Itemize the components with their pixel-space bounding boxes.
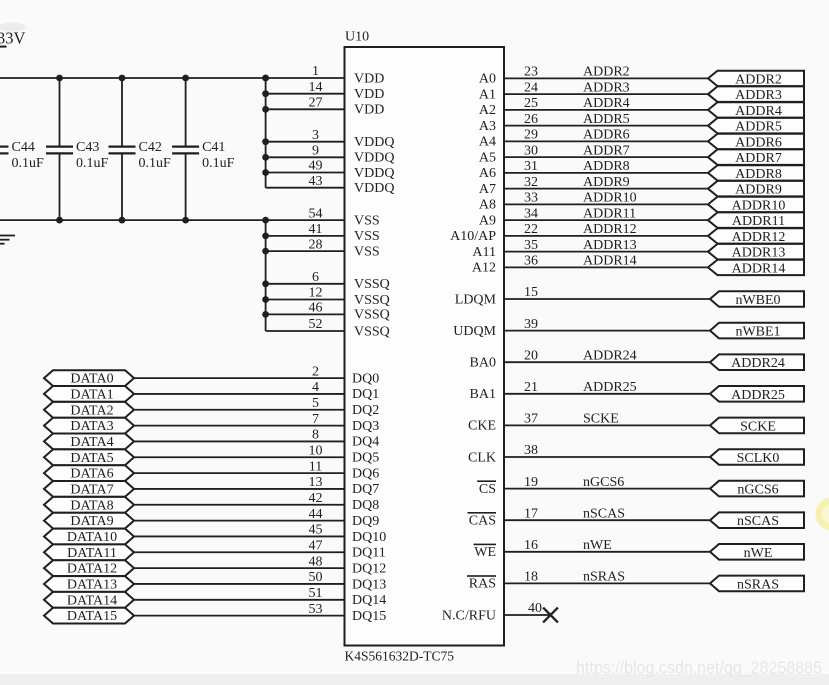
svg-text:1: 1 bbox=[312, 64, 319, 79]
port ADDR11 bbox=[708, 212, 804, 229]
svg-text:VSSQ: VSSQ bbox=[354, 324, 390, 339]
port DATA3 bbox=[44, 418, 134, 435]
port DATA11 bbox=[44, 544, 134, 560]
port SCKE bbox=[710, 418, 804, 435]
watermark logo blob bbox=[816, 498, 829, 531]
svg-text:ADDR5: ADDR5 bbox=[583, 112, 630, 127]
svg-text:39: 39 bbox=[524, 317, 538, 332]
svg-text:C44: C44 bbox=[12, 140, 35, 155]
svg-text:CLK: CLK bbox=[468, 450, 496, 465]
svg-text:ADDR8: ADDR8 bbox=[583, 159, 630, 174]
wire DATA2 to pin 5 bbox=[134, 409, 345, 411]
port ADDR12 bbox=[708, 228, 804, 245]
wire pin 31 (A6) to port ADDR8 bbox=[504, 172, 708, 174]
svg-text:nSRAS: nSRAS bbox=[583, 570, 625, 585]
svg-text:nGCS6: nGCS6 bbox=[737, 483, 778, 498]
wire pin 24 (A1) to port ADDR3 bbox=[504, 93, 708, 95]
svg-text:DQ6: DQ6 bbox=[352, 466, 379, 481]
pin name WE bbox=[474, 544, 497, 561]
port DATA7 bbox=[44, 481, 134, 498]
wire pin 41 stub (VSS) bbox=[266, 235, 345, 237]
svg-text:33V: 33V bbox=[0, 29, 26, 48]
wire DATA5 to pin 10 bbox=[134, 456, 345, 458]
svg-text:30: 30 bbox=[524, 143, 538, 158]
wire DATA12 to pin 48 bbox=[134, 567, 345, 569]
wire pin 17 to port nSCAS bbox=[504, 519, 710, 521]
svg-text:A11: A11 bbox=[472, 245, 496, 260]
svg-text:49: 49 bbox=[309, 159, 323, 174]
svg-text:nWE: nWE bbox=[744, 546, 773, 561]
svg-text:34: 34 bbox=[524, 206, 538, 221]
wire DATA13 to pin 50 bbox=[134, 583, 345, 585]
svg-text:10: 10 bbox=[309, 443, 323, 458]
svg-text:11: 11 bbox=[309, 459, 322, 474]
wire pin 3 stub (VDDQ) bbox=[266, 141, 345, 143]
wire DATA10 to pin 45 bbox=[134, 535, 345, 537]
svg-text:A2: A2 bbox=[479, 103, 496, 118]
port nWE bbox=[710, 544, 804, 561]
svg-text:C42: C42 bbox=[139, 140, 162, 155]
svg-text:53: 53 bbox=[309, 602, 323, 617]
svg-text:K4S561632D-TC75: K4S561632D-TC75 bbox=[345, 649, 455, 664]
wire DATA6 to pin 11 bbox=[134, 472, 345, 474]
port ADDR14 bbox=[708, 260, 804, 277]
reference designator U10 bbox=[345, 30, 369, 45]
svg-text:ADDR25: ADDR25 bbox=[583, 380, 637, 395]
svg-text:ADDR6: ADDR6 bbox=[583, 128, 630, 143]
port DATA4 bbox=[44, 434, 134, 451]
svg-text:5: 5 bbox=[312, 396, 319, 411]
svg-text:WE: WE bbox=[474, 545, 496, 560]
svg-text:VDDQ: VDDQ bbox=[354, 181, 394, 196]
svg-text:23: 23 bbox=[524, 65, 538, 80]
svg-text:ADDR14: ADDR14 bbox=[732, 261, 786, 276]
svg-text:ADDR7: ADDR7 bbox=[735, 151, 782, 166]
svg-text:33: 33 bbox=[524, 191, 538, 206]
port nGCS6 bbox=[710, 481, 804, 498]
port DATA0 bbox=[44, 370, 134, 387]
wire pin 15 to port nWBE0 bbox=[504, 298, 710, 300]
wire VSS rail (pin 54) bbox=[0, 219, 345, 221]
pin name RAS bbox=[467, 575, 496, 592]
svg-text:DQ13: DQ13 bbox=[352, 577, 386, 592]
port nSRAS bbox=[710, 576, 804, 593]
svg-text:A10/AP: A10/AP bbox=[450, 229, 496, 244]
svg-text:ADDR14: ADDR14 bbox=[583, 254, 637, 269]
port ADDR8 bbox=[708, 165, 804, 182]
svg-text:42: 42 bbox=[309, 491, 323, 506]
wire pin 6 stub (VSSQ) bbox=[266, 283, 345, 285]
svg-text:DATA11: DATA11 bbox=[67, 546, 117, 561]
svg-text:38: 38 bbox=[524, 443, 538, 458]
svg-text:28: 28 bbox=[309, 237, 323, 252]
net label VDD3.3V (clipped) bbox=[0, 29, 26, 48]
svg-text:ADDR24: ADDR24 bbox=[731, 356, 785, 371]
wire pin 21 to port ADDR25 bbox=[504, 393, 710, 395]
svg-text:DATA9: DATA9 bbox=[70, 514, 113, 529]
svg-text:DQ7: DQ7 bbox=[352, 482, 379, 497]
svg-text:DQ4: DQ4 bbox=[352, 435, 379, 450]
svg-text:ADDR3: ADDR3 bbox=[735, 88, 782, 103]
port DATA14 bbox=[44, 592, 134, 608]
svg-text:DATA13: DATA13 bbox=[67, 578, 117, 593]
svg-text:15: 15 bbox=[524, 285, 538, 300]
wire pin 29 (A4) to port ADDR6 bbox=[504, 140, 708, 142]
wire DATA4 to pin 8 bbox=[134, 440, 345, 442]
port DATA13 bbox=[44, 576, 134, 592]
wire DATA15 to pin 53 bbox=[134, 615, 345, 617]
svg-text:0.1uF: 0.1uF bbox=[139, 156, 172, 171]
svg-text:ADDR7: ADDR7 bbox=[583, 143, 630, 158]
svg-text:A12: A12 bbox=[472, 261, 496, 276]
svg-text:nWBE0: nWBE0 bbox=[735, 293, 780, 308]
svg-text:ADDR13: ADDR13 bbox=[583, 238, 637, 253]
svg-text:CAS: CAS bbox=[469, 514, 496, 529]
svg-text:A3: A3 bbox=[479, 119, 496, 134]
pin name CAS bbox=[468, 512, 497, 529]
junction pin 27 bbox=[262, 106, 269, 113]
part number K4S561632D-TC75 bbox=[345, 649, 455, 664]
port ADDR3 bbox=[708, 86, 804, 103]
svg-text:29: 29 bbox=[524, 128, 538, 143]
svg-text:25: 25 bbox=[524, 96, 538, 111]
svg-text:40: 40 bbox=[528, 601, 542, 616]
junction pin 12 bbox=[262, 296, 269, 303]
svg-text:37: 37 bbox=[524, 412, 538, 427]
svg-text:24: 24 bbox=[524, 80, 538, 95]
wire pin 23 (A0) to port ADDR2 bbox=[504, 77, 708, 79]
svg-text:DQ11: DQ11 bbox=[352, 546, 386, 561]
svg-text:DATA4: DATA4 bbox=[70, 435, 113, 450]
svg-text:DQ2: DQ2 bbox=[352, 403, 379, 418]
wire pin 20 to port ADDR24 bbox=[504, 361, 710, 363]
wire pin 37 to port SCKE bbox=[504, 424, 710, 426]
wire pin 25 (A2) to port ADDR4 bbox=[504, 109, 708, 111]
svg-text:VSSQ: VSSQ bbox=[354, 308, 390, 323]
svg-text:VDDQ: VDDQ bbox=[354, 151, 394, 166]
svg-text:A0: A0 bbox=[479, 72, 496, 87]
svg-text:nWE: nWE bbox=[583, 538, 612, 553]
svg-text:VSS: VSS bbox=[354, 213, 380, 228]
junction pin 6 bbox=[262, 280, 269, 287]
port ADDR24 bbox=[710, 354, 804, 371]
port ADDR2 bbox=[708, 71, 804, 88]
svg-text:nSRAS: nSRAS bbox=[737, 577, 779, 592]
svg-text:C41: C41 bbox=[202, 140, 225, 155]
svg-text:ADDR10: ADDR10 bbox=[732, 198, 786, 213]
wire VDD rail (pin 1) bbox=[0, 77, 345, 79]
svg-text:13: 13 bbox=[309, 475, 323, 490]
wire pin 14 stub (VDD) bbox=[266, 93, 345, 95]
port ADDR25 bbox=[710, 386, 804, 403]
port ADDR6 bbox=[708, 134, 804, 151]
junction pin 3 bbox=[262, 138, 269, 145]
wire DATA9 to pin 44 bbox=[134, 520, 345, 522]
junction pin 41 bbox=[262, 233, 269, 240]
wire DATA0 to pin 2 bbox=[134, 377, 345, 379]
port DATA2 bbox=[44, 402, 134, 418]
svg-text:DATA10: DATA10 bbox=[67, 530, 117, 545]
svg-text:BA0: BA0 bbox=[470, 356, 496, 371]
svg-text:nSCAS: nSCAS bbox=[583, 506, 625, 521]
svg-text:DQ9: DQ9 bbox=[352, 514, 379, 529]
svg-text:14: 14 bbox=[309, 80, 323, 95]
wire pin 9 stub (VDDQ) bbox=[266, 156, 345, 158]
no-connect X symbol bbox=[543, 608, 558, 623]
svg-text:DQ10: DQ10 bbox=[352, 530, 386, 545]
svg-text:DATA0: DATA0 bbox=[70, 372, 113, 387]
wire pin 22 (A10/AP) to port ADDR12 bbox=[504, 235, 708, 237]
wire pin 27 stub (VDD) bbox=[266, 108, 345, 110]
svg-text:32: 32 bbox=[524, 175, 538, 190]
svg-text:A7: A7 bbox=[479, 182, 496, 197]
port DATA6 bbox=[44, 465, 134, 482]
svg-text:A6: A6 bbox=[479, 166, 496, 181]
wire pin 18 to port nSRAS bbox=[504, 582, 710, 584]
junction pin 14 bbox=[262, 90, 269, 97]
pin name CS bbox=[477, 480, 496, 497]
svg-text:48: 48 bbox=[309, 554, 323, 569]
wire pin 33 (A8) to port ADDR10 bbox=[504, 203, 708, 205]
port DATA8 bbox=[44, 497, 134, 513]
svg-text:VDD: VDD bbox=[354, 71, 384, 86]
svg-text:VDDQ: VDDQ bbox=[354, 135, 394, 150]
svg-text:https://blog.csdn.net/qq_28258: https://blog.csdn.net/qq_28258885 bbox=[576, 658, 822, 679]
port ADDR4 bbox=[708, 102, 804, 119]
svg-text:ADDR13: ADDR13 bbox=[732, 246, 786, 261]
svg-text:N.C/RFU: N.C/RFU bbox=[442, 608, 496, 623]
port DATA5 bbox=[44, 449, 134, 465]
wire DATA3 to pin 7 bbox=[134, 425, 345, 427]
capacitor C41 bbox=[172, 78, 199, 220]
wire pin 40 N.C/RFU stub bbox=[504, 614, 551, 616]
port SCLK0 bbox=[710, 449, 804, 466]
port ADDR5 bbox=[708, 118, 804, 135]
svg-text:36: 36 bbox=[524, 254, 538, 269]
svg-text:ADDR4: ADDR4 bbox=[735, 104, 782, 119]
junction pin 46 bbox=[262, 311, 269, 318]
svg-text:DATA2: DATA2 bbox=[70, 403, 113, 418]
svg-text:A4: A4 bbox=[479, 135, 496, 150]
svg-text:3: 3 bbox=[312, 128, 319, 143]
wire pin 30 (A5) to port ADDR7 bbox=[504, 156, 708, 158]
svg-text:20: 20 bbox=[524, 348, 538, 363]
svg-text:43: 43 bbox=[309, 174, 323, 189]
wire pin 28 stub (VSS) bbox=[266, 250, 345, 252]
svg-text:DATA7: DATA7 bbox=[70, 483, 113, 498]
svg-text:46: 46 bbox=[309, 301, 323, 316]
svg-text:DATA6: DATA6 bbox=[70, 467, 113, 482]
svg-text:44: 44 bbox=[309, 507, 323, 522]
svg-text:SCKE: SCKE bbox=[583, 412, 619, 427]
svg-text:A5: A5 bbox=[479, 150, 496, 165]
svg-text:0.1uF: 0.1uF bbox=[76, 156, 109, 171]
svg-text:VSS: VSS bbox=[354, 244, 380, 259]
svg-text:ADDR8: ADDR8 bbox=[735, 167, 782, 182]
junction pin 49 bbox=[262, 169, 269, 176]
value label C41 0.1uF bbox=[202, 140, 235, 171]
svg-text:SCKE: SCKE bbox=[740, 419, 776, 434]
svg-text:19: 19 bbox=[524, 475, 538, 490]
svg-text:ADDR10: ADDR10 bbox=[583, 191, 637, 206]
svg-text:UDQM: UDQM bbox=[453, 324, 496, 339]
svg-text:22: 22 bbox=[524, 222, 538, 237]
svg-text:47: 47 bbox=[309, 538, 323, 553]
svg-text:6: 6 bbox=[312, 270, 319, 285]
capacitor C44 bbox=[0, 147, 9, 154]
svg-text:27: 27 bbox=[309, 96, 323, 111]
junction pin 9 bbox=[262, 154, 269, 161]
svg-text:ADDR12: ADDR12 bbox=[732, 230, 786, 245]
svg-text:CKE: CKE bbox=[468, 419, 496, 434]
svg-text:18: 18 bbox=[524, 570, 538, 585]
wire pin 35 (A11) to port ADDR13 bbox=[504, 251, 708, 253]
svg-text:DQ3: DQ3 bbox=[352, 419, 379, 434]
svg-text:ADDR9: ADDR9 bbox=[583, 175, 630, 190]
svg-text:26: 26 bbox=[524, 112, 538, 127]
svg-text:0.1uF: 0.1uF bbox=[12, 156, 45, 171]
svg-text:VDDQ: VDDQ bbox=[354, 166, 394, 181]
svg-text:VSS: VSS bbox=[354, 229, 380, 244]
svg-text:45: 45 bbox=[309, 523, 323, 538]
svg-text:31: 31 bbox=[524, 159, 538, 174]
value label C43 0.1uF bbox=[76, 140, 109, 171]
junction pin 28 bbox=[262, 248, 269, 255]
svg-text:9: 9 bbox=[312, 144, 319, 159]
svg-text:DQ14: DQ14 bbox=[352, 593, 386, 608]
svg-text:ADDR25: ADDR25 bbox=[731, 388, 785, 403]
wire pin 39 to port nWBE1 bbox=[504, 330, 710, 332]
value label C44 0.1uF bbox=[12, 140, 45, 171]
svg-text:12: 12 bbox=[309, 286, 323, 301]
wire pin 43 stub (VDDQ) bbox=[266, 187, 345, 189]
wire DATA14 to pin 51 bbox=[134, 599, 345, 601]
wire pin 34 (A9) to port ADDR11 bbox=[504, 219, 708, 221]
port DATA12 bbox=[44, 560, 134, 577]
port ADDR10 bbox=[708, 197, 804, 214]
svg-text:U10: U10 bbox=[345, 30, 369, 45]
port ADDR7 bbox=[708, 149, 804, 166]
wire pin 36 (A12) to port ADDR14 bbox=[504, 266, 708, 268]
wire pin 16 to port nWE bbox=[504, 551, 710, 553]
svg-text:nGCS6: nGCS6 bbox=[583, 475, 624, 490]
svg-text:ADDR3: ADDR3 bbox=[583, 80, 630, 95]
wire DATA1 to pin 4 bbox=[134, 393, 345, 395]
svg-text:ADDR9: ADDR9 bbox=[735, 183, 782, 198]
svg-text:DATA12: DATA12 bbox=[67, 562, 117, 577]
wire DATA11 to pin 47 bbox=[134, 551, 345, 553]
port DATA1 bbox=[44, 386, 134, 403]
svg-text:8: 8 bbox=[312, 428, 319, 443]
svg-text:A1: A1 bbox=[479, 87, 496, 102]
svg-text:VDD: VDD bbox=[354, 87, 384, 102]
svg-text:BA1: BA1 bbox=[470, 387, 496, 402]
junction dots on VSS rail bbox=[56, 217, 269, 224]
svg-text:ADDR11: ADDR11 bbox=[583, 206, 636, 221]
value label C42 0.1uF bbox=[139, 140, 172, 171]
svg-text:ADDR4: ADDR4 bbox=[583, 96, 630, 111]
svg-text:nWBE1: nWBE1 bbox=[735, 325, 780, 340]
svg-text:2: 2 bbox=[312, 364, 319, 379]
svg-text:ADDR2: ADDR2 bbox=[735, 72, 782, 87]
svg-text:A9: A9 bbox=[479, 213, 496, 228]
svg-text:DQ5: DQ5 bbox=[352, 451, 379, 466]
wire pin 52 stub (VSSQ) bbox=[266, 330, 345, 332]
svg-text:41: 41 bbox=[309, 222, 323, 237]
wire pin 46 stub (VSSQ) bbox=[266, 313, 345, 315]
svg-text:51: 51 bbox=[309, 586, 323, 601]
svg-text:DQ12: DQ12 bbox=[352, 561, 386, 576]
wire VSS/VSSQ bus vertical bbox=[265, 220, 267, 331]
wire DATA8 to pin 42 bbox=[134, 504, 345, 506]
capacitor C42 bbox=[109, 78, 136, 220]
port ADDR13 bbox=[708, 244, 804, 261]
svg-text:DATA3: DATA3 bbox=[70, 419, 113, 434]
port DATA15 bbox=[44, 608, 134, 625]
port DATA9 bbox=[44, 513, 134, 530]
svg-text:7: 7 bbox=[312, 412, 319, 427]
svg-text:VSSQ: VSSQ bbox=[354, 277, 390, 292]
svg-text:DATA1: DATA1 bbox=[70, 388, 113, 403]
svg-text:A8: A8 bbox=[479, 198, 496, 213]
port nWBE0 bbox=[710, 291, 804, 308]
wire pin 32 (A7) to port ADDR9 bbox=[504, 188, 708, 190]
wire pin 12 stub (VSSQ) bbox=[266, 299, 345, 301]
port nWBE1 bbox=[710, 323, 804, 340]
svg-text:ADDR6: ADDR6 bbox=[735, 135, 782, 150]
svg-text:DATA5: DATA5 bbox=[70, 451, 113, 466]
IC U10 SDRAM chip body bbox=[345, 47, 505, 646]
port nSCAS bbox=[710, 512, 804, 529]
wire pin 19 to port nGCS6 bbox=[504, 488, 710, 490]
svg-text:RAS: RAS bbox=[469, 577, 496, 592]
capacitor C43 bbox=[46, 78, 73, 220]
svg-text:DQ8: DQ8 bbox=[352, 498, 379, 513]
port DATA10 bbox=[44, 529, 134, 545]
port ADDR9 bbox=[708, 181, 804, 198]
junction dots on VDD rail bbox=[56, 75, 269, 82]
svg-text:DATA15: DATA15 bbox=[67, 609, 117, 624]
svg-text:52: 52 bbox=[309, 317, 323, 332]
svg-text:CS: CS bbox=[479, 482, 496, 497]
svg-text:0.1uF: 0.1uF bbox=[202, 156, 235, 171]
wire VDD/VDDQ bus vertical bbox=[265, 78, 267, 188]
wire pin 38 to port SCLK0 bbox=[504, 456, 710, 458]
svg-text:DQ1: DQ1 bbox=[352, 387, 379, 402]
wire pin 26 (A3) to port ADDR5 bbox=[504, 125, 708, 127]
svg-text:VDD: VDD bbox=[354, 103, 384, 118]
svg-text:DQ0: DQ0 bbox=[352, 371, 379, 386]
svg-text:ADDR2: ADDR2 bbox=[583, 65, 630, 80]
svg-text:nSCAS: nSCAS bbox=[737, 514, 779, 529]
svg-text:ADDR11: ADDR11 bbox=[732, 214, 785, 229]
svg-text:ADDR12: ADDR12 bbox=[583, 222, 637, 237]
svg-text:54: 54 bbox=[309, 206, 323, 221]
svg-text:DATA14: DATA14 bbox=[67, 593, 117, 608]
svg-text:C43: C43 bbox=[76, 140, 99, 155]
svg-text:DQ15: DQ15 bbox=[352, 609, 386, 624]
svg-text:ADDR5: ADDR5 bbox=[735, 120, 782, 135]
svg-text:17: 17 bbox=[524, 506, 538, 521]
svg-text:LDQM: LDQM bbox=[455, 292, 497, 307]
svg-text:SCLK0: SCLK0 bbox=[737, 451, 780, 466]
svg-text:DATA8: DATA8 bbox=[70, 498, 113, 513]
svg-text:35: 35 bbox=[524, 238, 538, 253]
svg-text:16: 16 bbox=[524, 538, 538, 553]
svg-text:VSSQ: VSSQ bbox=[354, 293, 390, 308]
wire DATA7 to pin 13 bbox=[134, 488, 345, 490]
svg-text:50: 50 bbox=[309, 570, 323, 585]
